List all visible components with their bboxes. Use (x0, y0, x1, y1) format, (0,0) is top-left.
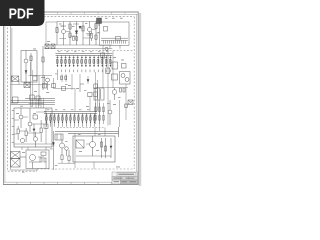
resistor R17 (40, 120, 42, 142)
wire y84.6 (11, 79, 50, 85)
wire column right (96, 45, 128, 88)
transistor Q9 (112, 88, 117, 100)
LED array row 2 top ticks (46, 114, 96, 116)
transistor Q11 (90, 136, 96, 156)
resistor R22 (80, 84, 92, 97)
resistor network RN1 (95, 103, 105, 124)
transistor Q7 (20, 138, 24, 142)
sheet right edge shadow (139, 13, 142, 186)
transistor Q4 (41, 46, 50, 90)
SCR array row 1 gate resistors (56, 60, 111, 64)
opto U3 (76, 140, 84, 148)
resistor R1 (56, 22, 58, 46)
driver module box (73, 136, 115, 162)
bottom-left bus wires (11, 99, 55, 105)
transistor Q5 (19, 108, 23, 128)
transformer T2 box (94, 88, 104, 100)
capacitor C11 small comps left-top (45, 44, 55, 49)
filter block FL1 (11, 152, 21, 159)
sheet outer border frame (3, 12, 139, 185)
resistor R24 (68, 150, 70, 163)
wires in driver module (76, 144, 111, 169)
SCR array row 1 (57, 55, 110, 67)
switch S1 box (55, 134, 63, 140)
diode D8 (87, 80, 89, 82)
fuse F1 (128, 100, 133, 104)
transistor Q1 (61, 22, 66, 46)
resistor R3 (82, 22, 84, 46)
wire collector lower-mid (58, 133, 75, 168)
capacitor C8 (40, 152, 46, 162)
resistor R21 (104, 138, 106, 158)
SCR array row 1 cathode marks (56, 56, 111, 58)
label specks (12, 18, 124, 173)
sparse drops to bus 2 (39, 72, 96, 111)
wire from badge area (46, 22, 57, 44)
SCR array row 1 terminal stubs (57, 70, 110, 73)
mid-left rail wire (29, 62, 52, 106)
transistor Q10 (108, 100, 112, 125)
left mid amplifier box (21, 51, 37, 83)
resistor R8 (30, 53, 37, 80)
resistor R20 (100, 138, 102, 158)
capacitor C2 (122, 64, 127, 69)
LED array row 2 (47, 113, 95, 125)
transformer T1 box (100, 22, 130, 49)
LED array row 2 terminal dots (46, 125, 95, 128)
title block text marks (114, 174, 137, 183)
top-center cluster: top rail wire (57, 21, 100, 23)
transistor Q6 (28, 108, 32, 132)
capacitor C5 (30, 95, 34, 100)
resistor R10 (106, 68, 110, 74)
resistor R9 (101, 47, 108, 58)
collector wires (55, 127, 119, 137)
LED array row 2 arrows (46, 122, 96, 124)
diode D12 (110, 138, 112, 158)
resistor R13 (94, 84, 98, 97)
transistor pair U2 (120, 72, 131, 85)
node wire right of row 1 (112, 51, 114, 88)
diode D1 (75, 22, 78, 46)
capacitor C6 (36, 96, 40, 100)
resistor R4 (95, 22, 97, 46)
dashed control net (57, 127, 105, 129)
capacitor C14 (24, 83, 30, 88)
capacitor C13 (33, 115, 48, 128)
wires lower-left (11, 147, 46, 170)
transistor Q12 (60, 140, 69, 156)
capacitor C4 (61, 76, 67, 80)
diode D2 (79, 26, 81, 28)
relay K1 coil box (97, 18, 102, 26)
diode module D6 (112, 74, 118, 80)
resistor R23 (61, 155, 63, 160)
resistor R16 (25, 128, 27, 142)
bridge rectifier box (11, 159, 21, 168)
capacitor C9 (120, 88, 126, 92)
top-center cluster: lower rail wires (45, 45, 113, 49)
potentiometer VR1 (90, 31, 92, 41)
wire drops (95, 128, 105, 137)
diode D13 (52, 131, 54, 170)
right vertical feeders (108, 84, 126, 127)
bus B1 double line (56, 53, 113, 55)
inner dashed drawing boundary (8, 17, 135, 172)
wire bundle left (36, 98, 44, 108)
resistor R14 (13, 97, 19, 103)
transistor Q3 (24, 51, 28, 85)
resistor R12 (43, 84, 47, 89)
control board box (14, 108, 52, 147)
resistor R11 (11, 76, 19, 82)
bus B2 double line (44, 111, 97, 113)
diode D14 (33, 124, 35, 137)
svg-text:PDF: PDF (9, 6, 34, 23)
border zone tick marks (17, 12, 125, 185)
diode module D5 (112, 62, 118, 69)
left supply rail wire (11, 26, 12, 170)
capacitor C10 (125, 104, 128, 107)
transistor Q8 (33, 132, 37, 147)
resistor R2 (69, 22, 71, 46)
LED array row 2 bodies (45, 117, 95, 120)
wires inside control board (14, 108, 52, 144)
title block table (112, 172, 138, 184)
wire risers mid (54, 78, 100, 131)
wire y103 (29, 103, 44, 105)
capacitor C12 (52, 84, 66, 91)
transistor Q2 (87, 22, 92, 46)
PDF badge (0, 0, 45, 26)
resistor R15 (17, 126, 19, 140)
interconnect wires top cluster (60, 24, 100, 39)
motor M1 (20, 150, 49, 169)
capacitor C1 (73, 37, 78, 40)
SCR array row 1 anode arrows (57, 65, 112, 67)
dashed net above bus (57, 50, 134, 52)
